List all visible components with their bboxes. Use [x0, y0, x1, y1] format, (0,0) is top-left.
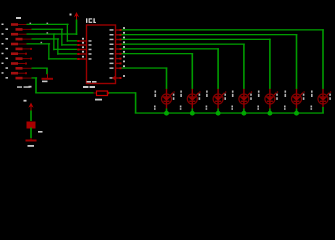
resistor R2: [6, 28, 32, 31]
label above resistor bank: [16, 17, 21, 19]
resistor R1: [2, 23, 27, 26]
resistor R6: [6, 48, 33, 51]
LED LED3: [206, 89, 227, 110]
supply +5V arrow left: [24, 86, 34, 111]
supply +5V arrow top: [70, 12, 80, 20]
IC1 left pin 3: [77, 46, 92, 50]
IC1 right pin Q4: [110, 41, 126, 45]
IC1 right pin Q9: [110, 65, 126, 69]
resistor R13: [87, 81, 110, 101]
resistor R3: [2, 33, 27, 36]
junction LED1 rail: [164, 111, 169, 116]
resistor R11: [2, 72, 28, 75]
LED LED5: [257, 89, 278, 110]
wire R1 to IC1 left pin: [27, 24, 78, 42]
IC1 right pin Q3: [110, 46, 126, 50]
junction LED5 rail: [267, 111, 272, 116]
resistor R10: [6, 67, 32, 70]
wire LED1 cathode to rail: [166, 109, 168, 114]
IC1 value label 4017: [83, 86, 95, 88]
wire Q3 to LED3 anode: [122, 48, 219, 89]
wire R5 to IC1 left pin: [27, 43, 78, 60]
wire Q6 to LED6 anode: [122, 34, 298, 89]
wire Q5 to LED5 anode: [122, 39, 271, 89]
wire R14 to ground: [30, 128, 32, 139]
LED LED7: [311, 89, 332, 110]
wire LED4 cathode to rail: [243, 109, 245, 114]
LED LED2: [180, 89, 201, 110]
net label speck row5: [41, 42, 43, 43]
resistor R9: [2, 62, 28, 65]
IC1 left pin 2: [77, 42, 92, 46]
LED LED1: [154, 89, 175, 110]
wire Q9 to LED1 anode: [122, 67, 168, 89]
resistor R14: [27, 122, 43, 133]
wire R3 net horizontal to +5V drop: [54, 33, 78, 34]
value label 4x470 under bank: [17, 86, 30, 88]
resistor R7: [2, 52, 28, 55]
wire main net to R13: [35, 92, 93, 93]
wire R2 to IC1 left pin: [32, 29, 78, 46]
IC1 right pin Q1: [110, 56, 126, 60]
wire LED6 cathode to rail: [296, 109, 298, 114]
wire R3 to IC1 left pin: [27, 33, 78, 50]
wire R10 to ground: [32, 68, 48, 75]
wire LED5 cathode to rail: [269, 109, 271, 114]
IC1 right pin Q2: [110, 51, 126, 55]
resistor R4: [6, 38, 32, 41]
wire Q2 to LED2 anode: [122, 53, 194, 89]
wire Q4 to LED4 anode: [122, 44, 245, 90]
wire Q7 to LED7 anode: [122, 29, 324, 89]
LED LED4: [231, 89, 252, 110]
net label speck row3: [47, 32, 49, 33]
junction LED3 rail: [216, 111, 221, 116]
wire LED3 cathode to rail: [217, 109, 219, 114]
junction LED4 rail: [241, 111, 246, 116]
IC1 right pin Q0: [110, 61, 126, 65]
IC1 left pin 1: [77, 38, 92, 42]
junction LED2 rail: [190, 111, 195, 116]
net label speck row1 b: [47, 23, 49, 24]
wire R4 to IC1 left pin: [32, 38, 78, 55]
junction LED6 rail: [294, 111, 299, 116]
IC IC1 4017 box: [87, 25, 116, 84]
IC1 right pin Q7: [110, 27, 126, 31]
ground GND2: [26, 138, 37, 147]
wire R13 to LED cathode rail: [109, 92, 324, 114]
wire arrow to R14: [30, 111, 32, 122]
IC1 right pin CLK: [110, 75, 126, 80]
resistor R5: [2, 43, 27, 46]
wire R12 to cathode rail net: [32, 77, 38, 93]
IC1 right pin Q5: [110, 37, 126, 41]
LED LED6: [284, 89, 305, 110]
wire LED7 cathode to rail corner: [322, 107, 324, 114]
resistor R8: [6, 57, 33, 60]
IC1 right pin Q6: [110, 32, 126, 36]
ground GND1: [42, 74, 54, 82]
wire +5V arrow down to R3 net: [76, 20, 78, 36]
IC1 name label: [86, 18, 96, 23]
net label speck row1 a: [30, 23, 32, 24]
resistor R12: [6, 77, 32, 80]
IC1 left pin 4: [77, 51, 92, 55]
wire LED2 cathode to rail: [192, 109, 194, 114]
IC1 left pin 5: [77, 56, 92, 60]
